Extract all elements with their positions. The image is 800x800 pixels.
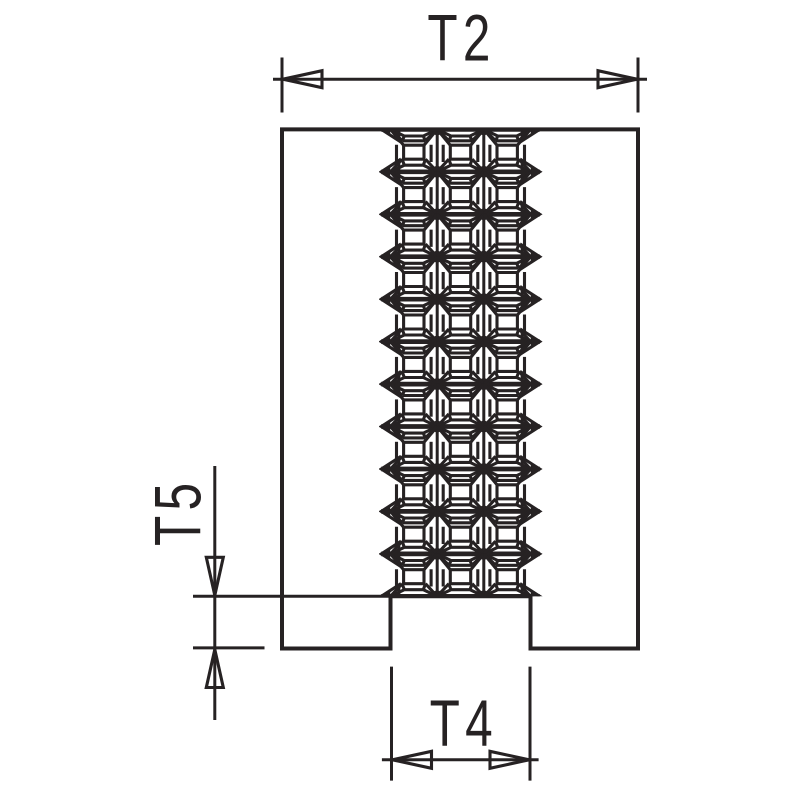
svg-text:T2: T2 <box>427 2 495 76</box>
svg-text:T5: T5 <box>142 478 216 546</box>
svg-text:T4: T4 <box>430 687 498 761</box>
